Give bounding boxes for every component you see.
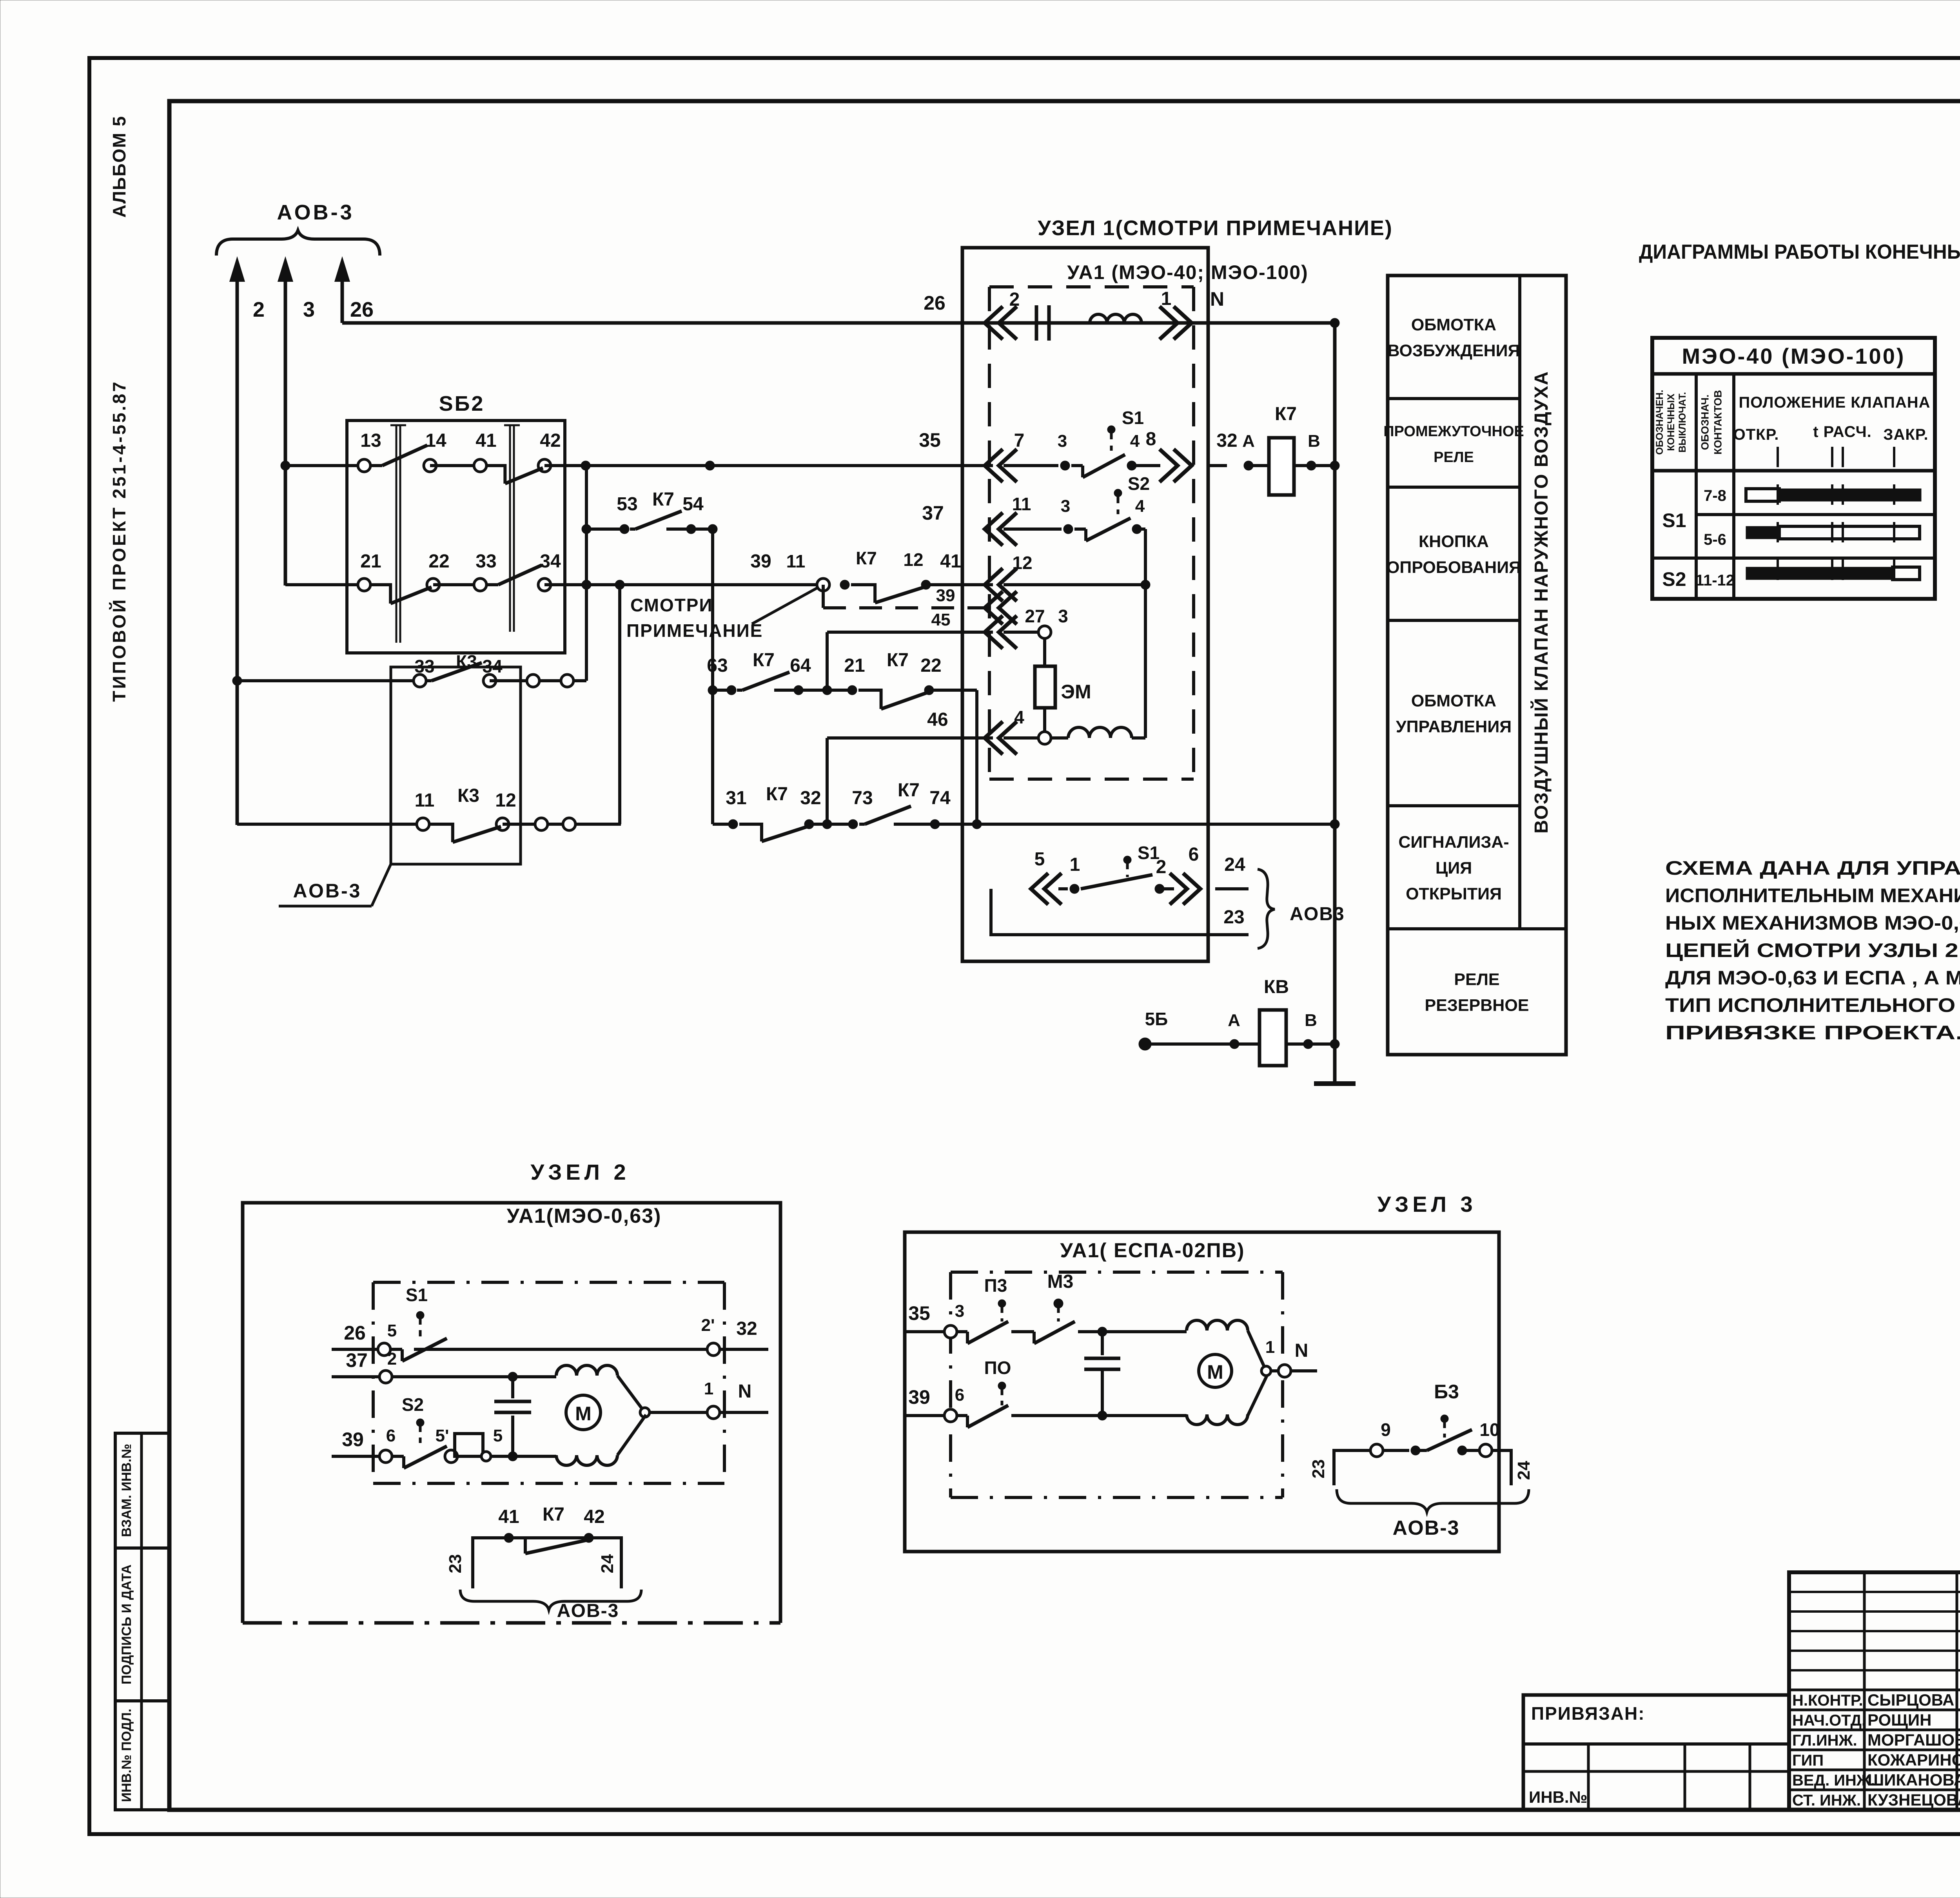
svg-text:СТ. ИНЖ.: СТ. ИНЖ. [1792,1792,1861,1809]
svg-text:2: 2 [1156,857,1167,877]
svg-text:К7: К7 [1275,404,1297,424]
svg-text:К7: К7 [887,650,909,671]
svg-text:6: 6 [955,1385,964,1405]
svg-text:7: 7 [1014,430,1025,451]
svg-text:МОРГАШОВ: МОРГАШОВ [1867,1731,1960,1749]
svg-text:К7: К7 [652,489,674,510]
svg-text:3: 3 [1058,431,1067,451]
svg-text:37: 37 [922,502,944,524]
svg-text:А: А [1228,1011,1240,1030]
svg-text:ПРОМЕЖУТОЧНОЕ: ПРОМЕЖУТОЧНОЕ [1383,423,1524,440]
svg-text:К3: К3 [456,651,477,672]
svg-text:ПРИВЯЗКЕ ПРОЕКТА.: ПРИВЯЗКЕ ПРОЕКТА. [1665,1022,1960,1044]
svg-text:23: 23 [1309,1459,1328,1479]
svg-text:КОНЕЧНЫХ: КОНЕЧНЫХ [1666,393,1677,451]
svg-text:21: 21 [844,655,865,676]
svg-text:КУЗНЕЦОВА: КУЗНЕЦОВА [1867,1791,1960,1809]
svg-text:3: 3 [955,1302,964,1321]
svg-text:ШИКАНОВА: ШИКАНОВА [1867,1771,1960,1789]
svg-text:ОБМОТКА: ОБМОТКА [1411,315,1496,334]
svg-text:4: 4 [1135,497,1145,516]
svg-text:23: 23 [1223,907,1244,928]
svg-text:7-8: 7-8 [1704,487,1726,504]
svg-text:64: 64 [790,655,811,676]
svg-text:УЗЕЛ 3: УЗЕЛ 3 [1377,1192,1476,1216]
svg-text:ОТКРЫТИЯ: ОТКРЫТИЯ [1406,885,1502,903]
svg-text:2: 2 [387,1349,397,1369]
svg-text:5: 5 [493,1426,503,1445]
svg-text:13: 13 [360,430,381,451]
svg-text:ПРИВЯЗАН:: ПРИВЯЗАН: [1531,1703,1645,1724]
svg-text:42: 42 [540,430,561,451]
svg-text:9: 9 [1381,1419,1391,1440]
svg-text:N: N [1210,288,1224,310]
svg-text:21: 21 [360,551,381,572]
svg-text:АОВ-3: АОВ-3 [277,201,354,224]
svg-text:М3: М3 [1047,1271,1074,1292]
svg-text:А: А [1242,431,1255,451]
svg-text:35: 35 [919,429,941,451]
svg-text:73: 73 [852,788,873,809]
svg-text:ПОДПИСЬ И ДАТА: ПОДПИСЬ И ДАТА [119,1564,134,1684]
svg-text:27: 27 [1025,606,1045,626]
svg-text:53: 53 [617,494,637,515]
svg-text:5Б: 5Б [1145,1009,1168,1029]
svg-text:УЗЕЛ 2: УЗЕЛ 2 [530,1160,630,1184]
svg-text:33: 33 [475,551,496,572]
svg-text:S1: S1 [1662,509,1686,531]
svg-text:14: 14 [425,430,446,451]
svg-text:6: 6 [1189,844,1199,865]
svg-text:ОТКР.: ОТКР. [1733,426,1779,443]
svg-text:34: 34 [540,551,561,572]
svg-text:РЕЛЕ: РЕЛЕ [1434,449,1474,466]
svg-text:12: 12 [495,790,516,811]
svg-text:НЫХ МЕХАНИЗМОВ МЭО-0,63 И: НЫХ МЕХАНИЗМОВ МЭО-0,63 И ЕСПА СХЕМА АНА… [1665,912,1960,934]
svg-text:35: 35 [908,1302,930,1324]
svg-text:УА1 (МЭО-40; МЭО-100): УА1 (МЭО-40; МЭО-100) [1067,261,1308,283]
svg-text:КОНТАКТОВ: КОНТАКТОВ [1712,390,1724,455]
svg-text:М: М [1207,1361,1223,1383]
svg-text:СЫРЦОВА: СЫРЦОВА [1867,1691,1954,1709]
svg-text:41: 41 [475,430,496,451]
svg-text:ВЕД. ИНЖ.: ВЕД. ИНЖ. [1792,1772,1875,1789]
svg-text:5-6: 5-6 [1704,531,1726,548]
svg-text:11-12: 11-12 [1695,572,1735,589]
svg-text:26: 26 [350,298,374,321]
svg-text:В: В [1305,1011,1317,1030]
svg-text:РОЩИН: РОЩИН [1867,1711,1931,1729]
svg-text:К7: К7 [898,780,920,801]
svg-text:42: 42 [584,1506,604,1527]
svg-text:СИГНАЛИЗА-: СИГНАЛИЗА- [1398,833,1509,852]
svg-text:КОЖАРИНОВА: КОЖАРИНОВА [1867,1751,1960,1769]
svg-text:N: N [1295,1340,1308,1361]
svg-text:ГИП: ГИП [1792,1752,1824,1769]
svg-text:ЦИЯ: ЦИЯ [1436,859,1472,877]
svg-text:К7: К7 [856,548,877,568]
svg-text:S1: S1 [406,1285,428,1305]
svg-text:ДЛЯ МЭО-0,63 И ЕСПА , А МА: ДЛЯ МЭО-0,63 И ЕСПА , А МАРКИ 41, 45 ,46… [1665,967,1960,989]
svg-text:37: 37 [346,1349,368,1371]
svg-text:ТИПОВОЙ ПРОЕКТ 251-4-55.87: ТИПОВОЙ ПРОЕКТ 251-4-55.87 [109,380,129,702]
svg-text:SБ2: SБ2 [439,392,485,415]
svg-text:К3: К3 [457,785,479,806]
svg-text:АОВ-3: АОВ-3 [1392,1517,1459,1539]
svg-text:11: 11 [415,790,435,811]
svg-text:ВОЗДУШНЫЙ КЛАПАН НАРУЖНОГО: ВОЗДУШНЫЙ КЛАПАН НАРУЖНОГО ВОЗДУХА [1530,371,1552,834]
svg-text:ОБОЗНАЧ.: ОБОЗНАЧ. [1699,395,1711,450]
svg-text:22: 22 [920,655,941,676]
svg-text:t РАСЧ.: t РАСЧ. [1813,423,1872,441]
svg-text:ОПРОБОВАНИЯ: ОПРОБОВАНИЯ [1387,558,1521,577]
svg-text:КВ: КВ [1264,977,1289,997]
svg-text:ЦЕПЕЙ СМОТРИ УЗЛЫ 2 И 3 .: ЦЕПЕЙ СМОТРИ УЗЛЫ 2 И 3 . ЦЕПЬ МАРКИ „39… [1665,939,1960,961]
svg-text:32: 32 [1216,430,1237,451]
svg-text:ПРИМЕЧАНИЕ: ПРИМЕЧАНИЕ [626,620,763,641]
svg-text:39: 39 [936,586,955,605]
svg-text:32: 32 [800,788,821,809]
svg-text:63: 63 [707,655,728,676]
svg-text:УА1(МЭО-0,63): УА1(МЭО-0,63) [507,1205,662,1227]
svg-text:22: 22 [428,551,449,572]
svg-text:23: 23 [446,1554,465,1574]
svg-text:ЗАКР.: ЗАКР. [1883,426,1928,443]
svg-text:Б3: Б3 [1434,1381,1459,1403]
svg-text:УА1( ЕСПА-02ПВ): УА1( ЕСПА-02ПВ) [1060,1239,1245,1262]
svg-text:РЕЛЕ: РЕЛЕ [1454,970,1499,989]
svg-text:ОБМОТКА: ОБМОТКА [1411,692,1496,711]
svg-text:ТИП ИСПОЛНИТЕЛЬНОГО МЕХАНИ: ТИП ИСПОЛНИТЕЛЬНОГО МЕХАНИЗМА НЕОБХОДИМО… [1665,994,1960,1016]
svg-text:ИСПОЛНИТЕЛЬНЫМ МЕХАНИЗМОМ М: ИСПОЛНИТЕЛЬНЫМ МЕХАНИЗМОМ МЭО-40 , МЭО-1… [1665,885,1960,906]
svg-text:31: 31 [726,788,746,809]
svg-text:РЕЗЕРВНОЕ: РЕЗЕРВНОЕ [1425,996,1529,1015]
svg-text:39: 39 [342,1428,364,1450]
svg-text:26: 26 [924,292,946,314]
svg-text:39: 39 [908,1386,930,1408]
svg-text:М: М [575,1403,592,1425]
svg-text:5': 5' [436,1426,449,1445]
svg-text:1: 1 [704,1379,713,1398]
svg-text:1: 1 [1161,288,1172,309]
svg-text:26: 26 [344,1322,366,1344]
svg-text:74: 74 [929,788,951,809]
svg-text:УПРАВЛЕНИЯ: УПРАВЛЕНИЯ [1396,718,1512,736]
svg-text:32: 32 [736,1318,757,1339]
svg-text:ДИАГРАММЫ РАБОТЫ КОНЕЧНЫХ В: ДИАГРАММЫ РАБОТЫ КОНЕЧНЫХ ВЫКЛЮЧАТЕЛЕЙ И… [1639,240,1960,263]
svg-text:АОВ3: АОВ3 [1290,904,1345,925]
svg-text:АЛЬБОМ 5: АЛЬБОМ 5 [109,116,129,218]
svg-text:В: В [1308,431,1320,451]
svg-text:ПО: ПО [984,1358,1011,1378]
svg-text:2: 2 [1009,289,1020,310]
svg-text:ИНВ.№ ПОДЛ.: ИНВ.№ ПОДЛ. [119,1709,134,1802]
svg-text:3: 3 [1058,606,1068,626]
svg-text:П3: П3 [984,1275,1007,1296]
svg-text:41: 41 [498,1506,519,1527]
svg-text:N: N [738,1381,752,1402]
svg-text:6: 6 [386,1426,396,1445]
svg-text:ИНВ.№: ИНВ.№ [1529,1788,1587,1806]
svg-text:12: 12 [1012,553,1032,573]
svg-text:ВЗАМ. ИНВ.№: ВЗАМ. ИНВ.№ [119,1444,134,1537]
svg-text:S2: S2 [1662,568,1686,590]
svg-text:НАЧ.ОТД.: НАЧ.ОТД. [1792,1712,1866,1729]
svg-text:39: 39 [750,551,771,572]
svg-text:24: 24 [1514,1461,1534,1480]
svg-text:СХЕМА ДАНА ДЛЯ УПРАВЛЕН: СХЕМА ДАНА ДЛЯ УПРАВЛЕНИЯ КЛАПАНОМ НАРУЖ… [1665,857,1960,879]
svg-text:К7: К7 [753,650,775,671]
svg-text:ЭМ: ЭМ [1061,681,1091,703]
svg-text:54: 54 [682,494,704,515]
svg-text:2: 2 [253,298,265,321]
svg-text:5: 5 [387,1321,397,1340]
svg-text:41: 41 [940,551,961,572]
svg-text:К7: К7 [543,1504,564,1525]
svg-text:5: 5 [1034,849,1045,870]
svg-text:1: 1 [1070,854,1080,875]
svg-text:4: 4 [1014,707,1024,727]
svg-text:3: 3 [1061,497,1070,516]
svg-text:10: 10 [1479,1419,1499,1440]
svg-text:24: 24 [598,1554,617,1573]
svg-text:АОВ-3: АОВ-3 [557,1601,619,1621]
svg-text:ПОЛОЖЕНИЕ КЛАПАНА: ПОЛОЖЕНИЕ КЛАПАНА [1739,394,1930,411]
svg-text:24: 24 [1224,854,1245,875]
svg-text:КНОПКА: КНОПКА [1419,532,1489,551]
svg-text:Н.КОНТР.: Н.КОНТР. [1792,1692,1863,1709]
svg-text:S2: S2 [402,1394,424,1415]
svg-text:1: 1 [1265,1338,1275,1357]
svg-text:2': 2' [701,1316,715,1335]
svg-text:12: 12 [903,549,923,570]
svg-text:8: 8 [1146,429,1156,450]
svg-text:СМОТРИ: СМОТРИ [630,595,713,615]
svg-text:46: 46 [927,709,948,730]
svg-text:ВОЗБУЖДЕНИЯ: ВОЗБУЖДЕНИЯ [1388,341,1520,360]
svg-text:S2: S2 [1128,473,1150,494]
svg-text:ОБОЗНАЧЕН.: ОБОЗНАЧЕН. [1654,390,1665,455]
svg-text:УЗЕЛ 1(СМОТРИ ПРИМЕЧАНИЕ): УЗЕЛ 1(СМОТРИ ПРИМЕЧАНИЕ) [1038,216,1393,240]
svg-text:11: 11 [1012,494,1031,514]
svg-text:S1: S1 [1122,408,1144,428]
svg-text:МЭО-40 (МЭО-100): МЭО-40 (МЭО-100) [1682,344,1906,368]
svg-text:3: 3 [303,298,315,321]
svg-text:4: 4 [1130,431,1140,451]
svg-text:11: 11 [786,551,806,571]
svg-text:АОВ-3: АОВ-3 [293,880,362,902]
svg-text:К7: К7 [766,784,788,805]
svg-text:ГЛ.ИНЖ.: ГЛ.ИНЖ. [1792,1732,1857,1749]
svg-text:45: 45 [931,610,951,629]
svg-text:ВЫКЛЮЧАТ.: ВЫКЛЮЧАТ. [1677,392,1688,453]
